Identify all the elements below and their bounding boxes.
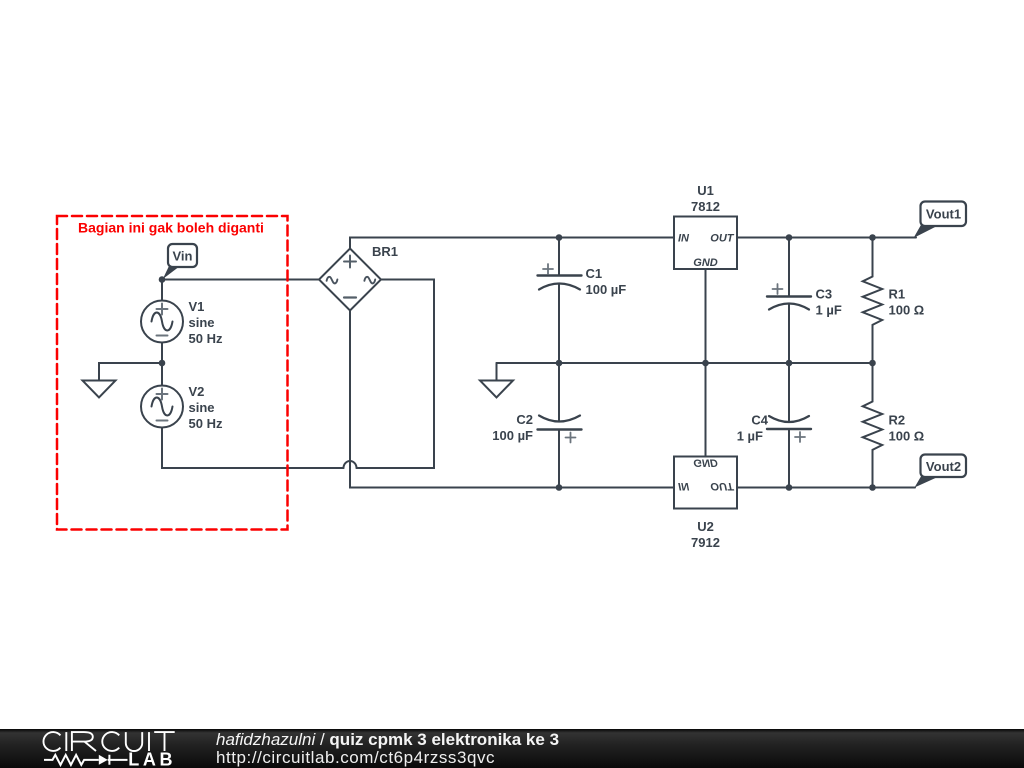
svg-text:LAB: LAB	[128, 750, 176, 768]
footer bar	[0, 729, 1024, 768]
voltage source V2	[141, 386, 183, 428]
op-amp U2 regulator box (flipped)	[674, 457, 737, 509]
logo CIRCUIT word	[43, 732, 174, 751]
node flag Vin	[163, 244, 197, 279]
capacitor C2 leads	[558, 363, 560, 488]
svg-text:Vout1: Vout1	[926, 207, 961, 222]
wire V2 bottom to return rail	[162, 428, 344, 469]
svg-text:C3: C3	[816, 287, 833, 302]
wire hop over BR1 bottom wire	[344, 461, 357, 468]
svg-text:100 Ω: 100 Ω	[889, 429, 925, 444]
svg-text:100 Ω: 100 Ω	[889, 303, 925, 318]
wire mid ground rail	[497, 362, 873, 364]
wire U2 OUT rail to Vout2	[737, 487, 915, 489]
svg-text:R2: R2	[889, 413, 906, 428]
svg-text:R1: R1	[889, 287, 906, 302]
V2 label	[189, 384, 223, 431]
node flag Vout2	[915, 455, 967, 488]
wire U1 OUT rail to Vout1	[737, 237, 916, 239]
node flag Vout1	[914, 202, 967, 239]
svg-text:GND: GND	[693, 257, 718, 269]
wire mid node to V2 top	[161, 363, 163, 386]
svg-text:sine: sine	[189, 315, 215, 330]
svg-text:7812: 7812	[691, 199, 720, 214]
wire mid node to ground GND1	[99, 363, 162, 381]
bridge rectifier BR1	[319, 249, 381, 311]
R2 label	[889, 413, 925, 444]
svg-text:100 µF: 100 µF	[586, 282, 627, 297]
svg-text:V2: V2	[189, 384, 205, 399]
capacitor C1	[538, 264, 582, 290]
svg-text:C1: C1	[586, 266, 603, 281]
svg-text:V1: V1	[189, 299, 205, 314]
svg-text:GND: GND	[693, 457, 718, 469]
C4 label	[737, 413, 769, 444]
svg-text:OUT: OUT	[710, 233, 735, 245]
svg-text:1 µF: 1 µF	[737, 429, 763, 444]
svg-text:C2: C2	[516, 412, 533, 427]
svg-text:Bagian ini gak boleh diganti: Bagian ini gak boleh diganti	[78, 220, 264, 236]
wire BR1 top corner to U1 IN	[350, 238, 674, 249]
svg-text:OUT: OUT	[710, 480, 735, 492]
svg-text:7912: 7912	[691, 535, 720, 550]
capacitor C4 leads	[788, 363, 790, 488]
svg-text:U2: U2	[697, 519, 714, 534]
capacitor C2	[538, 416, 582, 443]
wire V1 bottom to mid node	[161, 343, 163, 364]
C2 label	[492, 412, 533, 443]
voltage source V1	[141, 301, 183, 343]
svg-text:50 Hz: 50 Hz	[189, 331, 223, 346]
capacitor C3 leads	[788, 238, 790, 364]
resistor R2	[863, 363, 883, 488]
svg-text:BR1: BR1	[372, 244, 398, 259]
R1 label	[889, 287, 925, 318]
V1 label	[189, 299, 223, 346]
svg-text:U1: U1	[697, 183, 714, 198]
wire ground GND2 stub	[496, 363, 498, 381]
svg-text:Vin: Vin	[173, 249, 193, 264]
wire Vin node to BR1 left corner	[162, 279, 319, 281]
resistor R1	[863, 238, 883, 364]
svg-text:Vout2: Vout2	[926, 459, 961, 474]
wire U1 GND pin	[705, 269, 707, 363]
wire return rail to BR1 right corner	[357, 280, 435, 469]
capacitor C4	[767, 416, 811, 442]
op-amp U1 regulator box	[674, 217, 737, 270]
svg-text:C4: C4	[751, 413, 768, 428]
wire U2 GND pin	[705, 363, 707, 457]
C1 label	[586, 266, 627, 297]
svg-text:100 µF: 100 µF	[492, 428, 533, 443]
C3 label	[816, 287, 842, 318]
svg-text:IN: IN	[678, 480, 690, 492]
capacitor C3	[767, 284, 811, 310]
wire Vin node to V1 top	[161, 280, 163, 301]
capacitor C1 leads	[558, 238, 560, 364]
ground GND2	[480, 381, 513, 398]
svg-text:1 µF: 1 µF	[816, 303, 842, 318]
wire BR1 bottom corner to U2 IN	[350, 311, 674, 488]
svg-text:IN: IN	[678, 233, 690, 245]
U2 label	[691, 519, 720, 550]
logo diode	[99, 755, 108, 765]
ground GND1	[83, 381, 116, 398]
U1 label	[691, 183, 720, 214]
svg-text:50 Hz: 50 Hz	[189, 416, 223, 431]
svg-text:sine: sine	[189, 400, 215, 415]
logo resistor squiggle	[44, 755, 99, 765]
junction node dots	[159, 234, 876, 491]
red annotation box	[57, 216, 288, 530]
